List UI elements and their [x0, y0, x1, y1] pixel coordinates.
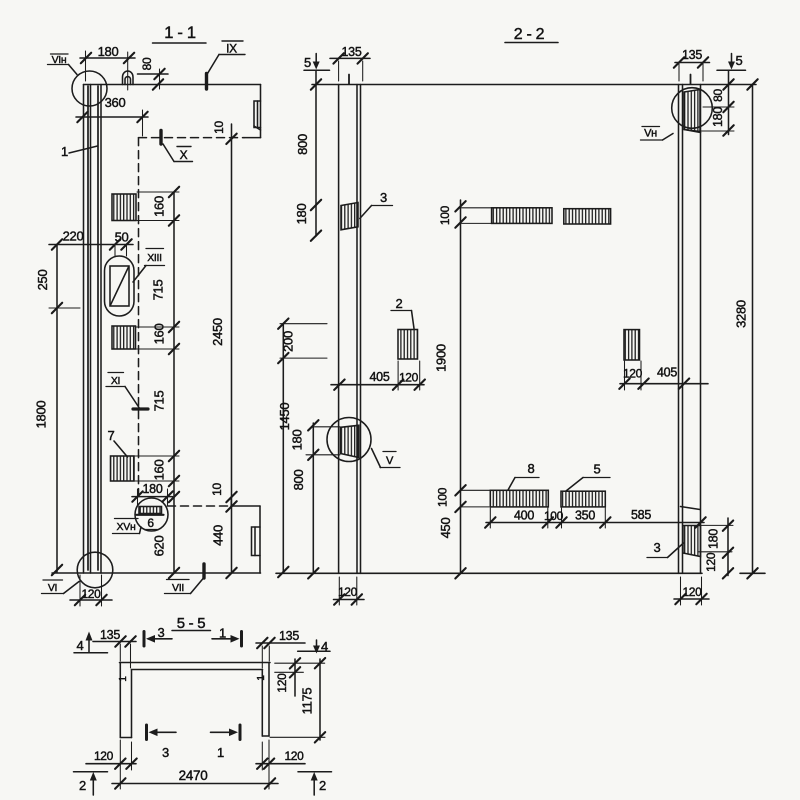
label XVn: [117, 521, 136, 533]
dim 180 bottom hook: [132, 496, 173, 498]
title 2-2: [514, 26, 545, 43]
detail circle V: [327, 418, 371, 462]
left member outline: [338, 85, 340, 574]
section mark 1 bottom: [239, 725, 242, 740]
dim 120 bottom left leg: [86, 763, 136, 765]
dim chain 250/1800 left: [56, 245, 58, 573]
channel top flange: [120, 662, 271, 664]
svg-text:2: 2: [79, 778, 86, 793]
svg-text:VI: VI: [48, 582, 57, 594]
svg-text:135: 135: [279, 629, 299, 643]
label XIII: [147, 252, 162, 264]
dim 180 top: [80, 57, 135, 59]
svg-text:180: 180: [98, 44, 119, 59]
dim chain 160/715/160/715/160/620: [173, 192, 175, 573]
svg-text:8: 8: [528, 461, 535, 476]
top edge: [312, 84, 756, 86]
rebar hatch right member top (Vn): [684, 90, 700, 132]
svg-text:715: 715: [151, 280, 166, 301]
svg-text:100: 100: [438, 205, 452, 225]
section mark VII: [202, 564, 205, 578]
embed hatch square right: [624, 330, 640, 360]
dim 120 bottom strip: [70, 599, 112, 601]
panel top flange right edge: [260, 85, 262, 138]
right member outline: [678, 85, 680, 574]
svg-text:120: 120: [94, 749, 114, 763]
svg-text:250: 250: [35, 270, 50, 291]
svg-text:2: 2: [319, 778, 326, 793]
dim 120 bottom right leg: [256, 763, 305, 765]
svg-text:200: 200: [281, 331, 296, 352]
section mark IX: [205, 74, 208, 90]
label 1 with leader: [61, 144, 68, 159]
svg-text:715: 715: [152, 391, 167, 412]
svg-text:VII: VII: [172, 582, 184, 594]
svg-text:400: 400: [514, 509, 534, 523]
svg-text:2470: 2470: [179, 768, 208, 783]
bottom edge: [276, 572, 702, 574]
svg-text:5: 5: [594, 462, 601, 477]
svg-text:220: 220: [63, 229, 84, 244]
edge notch bottom: [252, 527, 261, 556]
svg-text:135: 135: [100, 628, 120, 642]
svg-text:1900: 1900: [434, 344, 449, 372]
dim 135 top right: [675, 62, 710, 64]
svg-text:3: 3: [162, 745, 169, 760]
dim 135 top left: [93, 641, 136, 643]
right top dim chain 80/180: [728, 70, 730, 134]
detail circle VI bottom left: [77, 552, 113, 588]
panel bottom edge: [52, 572, 261, 574]
svg-text:1: 1: [61, 144, 68, 159]
svg-text:800: 800: [295, 134, 310, 155]
dim 2470: [112, 783, 278, 785]
hidden contour dashed horizontal: [139, 137, 245, 139]
member center marks: [348, 75, 350, 85]
svg-text:180: 180: [294, 204, 309, 225]
svg-text:800: 800: [291, 470, 306, 491]
label 8: [528, 461, 535, 476]
section mark 1 top: [240, 632, 243, 647]
svg-text:160: 160: [152, 196, 167, 217]
svg-text:120: 120: [81, 587, 101, 601]
svg-text:1450: 1450: [277, 403, 292, 431]
svg-text:120: 120: [338, 585, 358, 599]
svg-text:50: 50: [115, 230, 129, 245]
title 5-5: [177, 615, 206, 632]
svg-text:3: 3: [380, 190, 387, 205]
svg-text:180: 180: [707, 529, 721, 549]
svg-text:180: 180: [711, 107, 725, 127]
slant joint line right member: [681, 507, 701, 510]
svg-text:120: 120: [399, 371, 419, 385]
top mesh bar A: [492, 208, 552, 224]
outer dim 200/1450: [282, 324, 284, 572]
channel left leg: [119, 663, 121, 738]
svg-text:Vн: Vн: [644, 128, 657, 140]
section mark 3 bottom: [145, 725, 148, 740]
dim 10 top right: [212, 121, 226, 134]
embed plate hatch 1: [112, 194, 136, 221]
embed hatch square 2: [398, 330, 418, 360]
svg-text:120: 120: [284, 749, 304, 763]
svg-text:X: X: [180, 148, 188, 162]
svg-text:XVн: XVн: [117, 521, 136, 533]
SECTION 5-5: [74, 615, 332, 795]
svg-text:V: V: [386, 455, 394, 467]
dim 400/100/350/585: [486, 522, 704, 524]
dim 405/120 left: [331, 384, 424, 386]
rebar mark 1 in left leg: [118, 676, 129, 682]
label V: [386, 455, 394, 467]
svg-text:80: 80: [140, 57, 154, 70]
section mark XI: [133, 407, 148, 410]
SECTION 2-2: [276, 26, 765, 605]
svg-text:120: 120: [623, 367, 643, 381]
svg-text:XIII: XIII: [147, 252, 162, 264]
svg-text:2450: 2450: [210, 318, 225, 346]
label 3 bottom: [654, 540, 661, 555]
svg-text:100: 100: [544, 509, 564, 523]
svg-text:4: 4: [77, 638, 84, 653]
SECTION 1-1: [34, 24, 261, 606]
channel right leg: [268, 663, 270, 737]
svg-text:3: 3: [158, 625, 165, 640]
panel strip outline: [83, 85, 85, 574]
svg-text:100: 100: [436, 487, 450, 507]
svg-text:2: 2: [396, 296, 403, 311]
svg-text:620: 620: [152, 536, 167, 557]
bottom mesh bar item 5: [561, 491, 605, 507]
label 2: [396, 296, 403, 311]
rebar hatch in circle V: [341, 425, 359, 457]
svg-text:1800: 1800: [34, 401, 49, 429]
dim 120/405 right: [620, 383, 708, 385]
label VI: [48, 582, 57, 594]
svg-text:1: 1: [256, 675, 267, 681]
dim 1175: [319, 659, 321, 740]
panel top edge: [84, 84, 261, 86]
dim 135 top left: [330, 57, 370, 59]
label 3: [380, 190, 387, 205]
label Vn: [644, 128, 657, 140]
title 1-1: [164, 24, 196, 42]
svg-text:10: 10: [212, 121, 226, 134]
svg-text:135: 135: [682, 48, 702, 62]
svg-text:120: 120: [275, 673, 289, 693]
svg-text:XI: XI: [111, 375, 120, 387]
svg-text:180: 180: [143, 482, 163, 496]
svg-text:160: 160: [152, 460, 167, 481]
svg-text:440: 440: [211, 525, 226, 546]
rebar lines in strip: [87, 86, 89, 570]
embed plate hatch 2: [112, 326, 136, 349]
svg-text:120: 120: [704, 552, 718, 572]
rebar hatch right member bottom (item 3): [683, 526, 701, 557]
svg-text:5 - 5: 5 - 5: [177, 615, 206, 632]
label 5: [594, 462, 601, 477]
svg-text:1175: 1175: [300, 688, 315, 715]
svg-text:1: 1: [118, 676, 129, 682]
anchor slot oval: [105, 256, 135, 316]
left dim chain 180/800 lower: [312, 423, 314, 573]
dim 360: [76, 116, 148, 118]
hidden contour dashed vertical: [138, 138, 140, 500]
dim 3280: [752, 85, 754, 574]
rebar hatch left member top (item 3): [341, 203, 358, 230]
section arrow 4 right: [321, 639, 328, 654]
rebar mark 1 in right leg: [256, 675, 267, 681]
svg-text:5: 5: [736, 53, 743, 68]
middle dim line 100/1900/100/450: [460, 200, 462, 573]
svg-text:2 - 2: 2 - 2: [514, 26, 545, 43]
section mark 3 top: [143, 632, 146, 647]
dim 120 bottom right member: [674, 598, 709, 600]
dim 120 bottom left member: [334, 599, 365, 601]
detail circle 6: [135, 498, 168, 531]
bottom mesh bar item 8: [490, 490, 548, 507]
svg-text:160: 160: [152, 324, 167, 345]
svg-text:405: 405: [657, 366, 677, 380]
svg-text:360: 360: [105, 95, 126, 110]
dim 135 top right: [256, 642, 305, 644]
svg-text:450: 450: [438, 518, 453, 539]
bottom flange contours: [168, 505, 232, 507]
lifting loop: [123, 71, 134, 85]
dim 80: [138, 73, 169, 75]
svg-text:405: 405: [370, 370, 390, 384]
svg-text:1 - 1: 1 - 1: [164, 24, 196, 42]
flange underside solid: [244, 137, 261, 139]
svg-text:1: 1: [217, 745, 224, 760]
section arrow 2 right: [298, 771, 332, 773]
svg-text:5: 5: [304, 55, 311, 70]
section arrow 5 left: [304, 55, 311, 70]
embed plate hatch 3 (item 7): [111, 456, 135, 481]
svg-text:135: 135: [342, 45, 362, 59]
svg-text:IX: IX: [226, 42, 237, 56]
weld bar item 6: [139, 507, 162, 514]
label 7 with leader: [108, 428, 115, 443]
svg-text:3280: 3280: [734, 300, 749, 328]
dim line 2450/10/440 vertical: [231, 124, 233, 573]
detail circle VIIIn top left: [72, 71, 107, 106]
svg-text:3: 3: [654, 540, 661, 555]
section arrow 2 left: [74, 771, 108, 773]
section mark X: [159, 131, 162, 145]
svg-text:6: 6: [147, 516, 154, 530]
svg-text:180: 180: [290, 430, 305, 451]
svg-text:10: 10: [210, 483, 224, 496]
svg-text:350: 350: [575, 509, 595, 523]
right bottom dim chain 180/120: [727, 518, 729, 576]
label VIn: [52, 54, 67, 66]
svg-text:1: 1: [219, 626, 226, 641]
dim 120 flange thickness: [294, 659, 296, 696]
left dim chain 800/180: [315, 70, 317, 236]
svg-text:585: 585: [631, 508, 651, 522]
edge notch top: [254, 101, 261, 128]
section arrow 5 right: [736, 53, 743, 68]
svg-text:80: 80: [711, 89, 725, 102]
svg-text:120: 120: [682, 585, 702, 599]
section arrow 4 left: [77, 638, 84, 653]
detail circle Vn: [672, 88, 713, 129]
dim 220 / 50: [49, 244, 133, 246]
top mesh bar B: [564, 209, 611, 224]
